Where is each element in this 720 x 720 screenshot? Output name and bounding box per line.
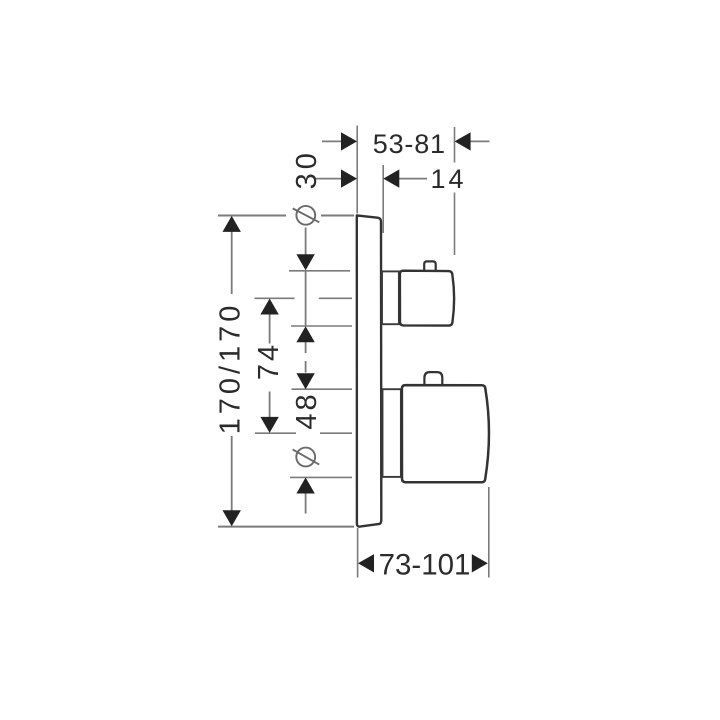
- svg-text:30: 30: [291, 149, 323, 189]
- extension line bottom-left x=357.6: [357, 528, 359, 578]
- arrow 74 bottom (down): [260, 417, 278, 433]
- top reference line y=215.5: [218, 215, 286, 217]
- arrows: [223, 132, 488, 572]
- svg-text:53-81: 53-81: [373, 129, 446, 159]
- dim 53-81 line y=141.4: [322, 140, 342, 142]
- handle 1 tab: [424, 261, 436, 271]
- arrow O30 bottom (up): [296, 326, 314, 342]
- arrow 170 bottom (down): [223, 510, 241, 526]
- diameter symbol bottom: [293, 448, 320, 467]
- handle 2 sleeve: [383, 389, 401, 477]
- bottom reference line y=526.6: [218, 526, 354, 528]
- plate (escutcheon): [357, 215, 382, 526]
- dim O30 shafts x=305.6: [305, 228, 307, 256]
- arrow 74 top (up): [260, 299, 278, 315]
- extension line right of 53-81 x=454.5: [454, 127, 456, 163]
- dim 74 shafts x=269.6: [269, 313, 271, 344]
- diameter symbol top: [293, 206, 320, 225]
- handle 1 sleeve: [382, 271, 399, 324]
- svg-text:14: 14: [430, 164, 466, 194]
- svg-text:73-101: 73-101: [379, 549, 471, 582]
- svg-text:48: 48: [291, 391, 323, 429]
- tick handle2 center y=433.2: [255, 432, 296, 434]
- handle 2 body: [402, 385, 489, 482]
- dim 170/170 vertical shafts x=231.7: [231, 231, 233, 294]
- arrow O30 top (down): [296, 254, 314, 270]
- tick handle1 bottom y=326: [291, 325, 352, 327]
- tick sleeve2 top y=389.2: [292, 388, 353, 390]
- arrow 170 top (up): [223, 216, 241, 232]
- tick handle1 center y=298.3: [255, 297, 295, 299]
- svg-text:74: 74: [253, 342, 285, 380]
- arrow 48 bottom (up): [296, 478, 314, 494]
- extension line bottom-right x=488.8: [488, 487, 490, 578]
- arrow 73-101 left: [358, 554, 374, 572]
- arrow 48 top (down): [296, 373, 314, 389]
- arrow 14 right: [383, 169, 399, 187]
- handle 1 body: [400, 271, 454, 326]
- arrow 53-81 right: [455, 132, 471, 150]
- arrow 14 left: [341, 169, 357, 187]
- svg-text:170/170: 170/170: [215, 302, 247, 435]
- tick handle1 top y=270.8: [289, 270, 350, 272]
- handle 2 tab: [424, 372, 442, 385]
- dim 48 lower shaft: [305, 493, 307, 514]
- extension line left of 53-81/14 x=357.2: [356, 126, 358, 214]
- tick sleeve2 bottom y=477.4: [290, 476, 352, 478]
- arrow 53-81 left: [341, 132, 357, 150]
- extension line right of 14 x=383.2: [382, 165, 384, 233]
- dim 14 line y=178.6: [315, 178, 342, 180]
- arrow 73-101 right: [472, 554, 488, 572]
